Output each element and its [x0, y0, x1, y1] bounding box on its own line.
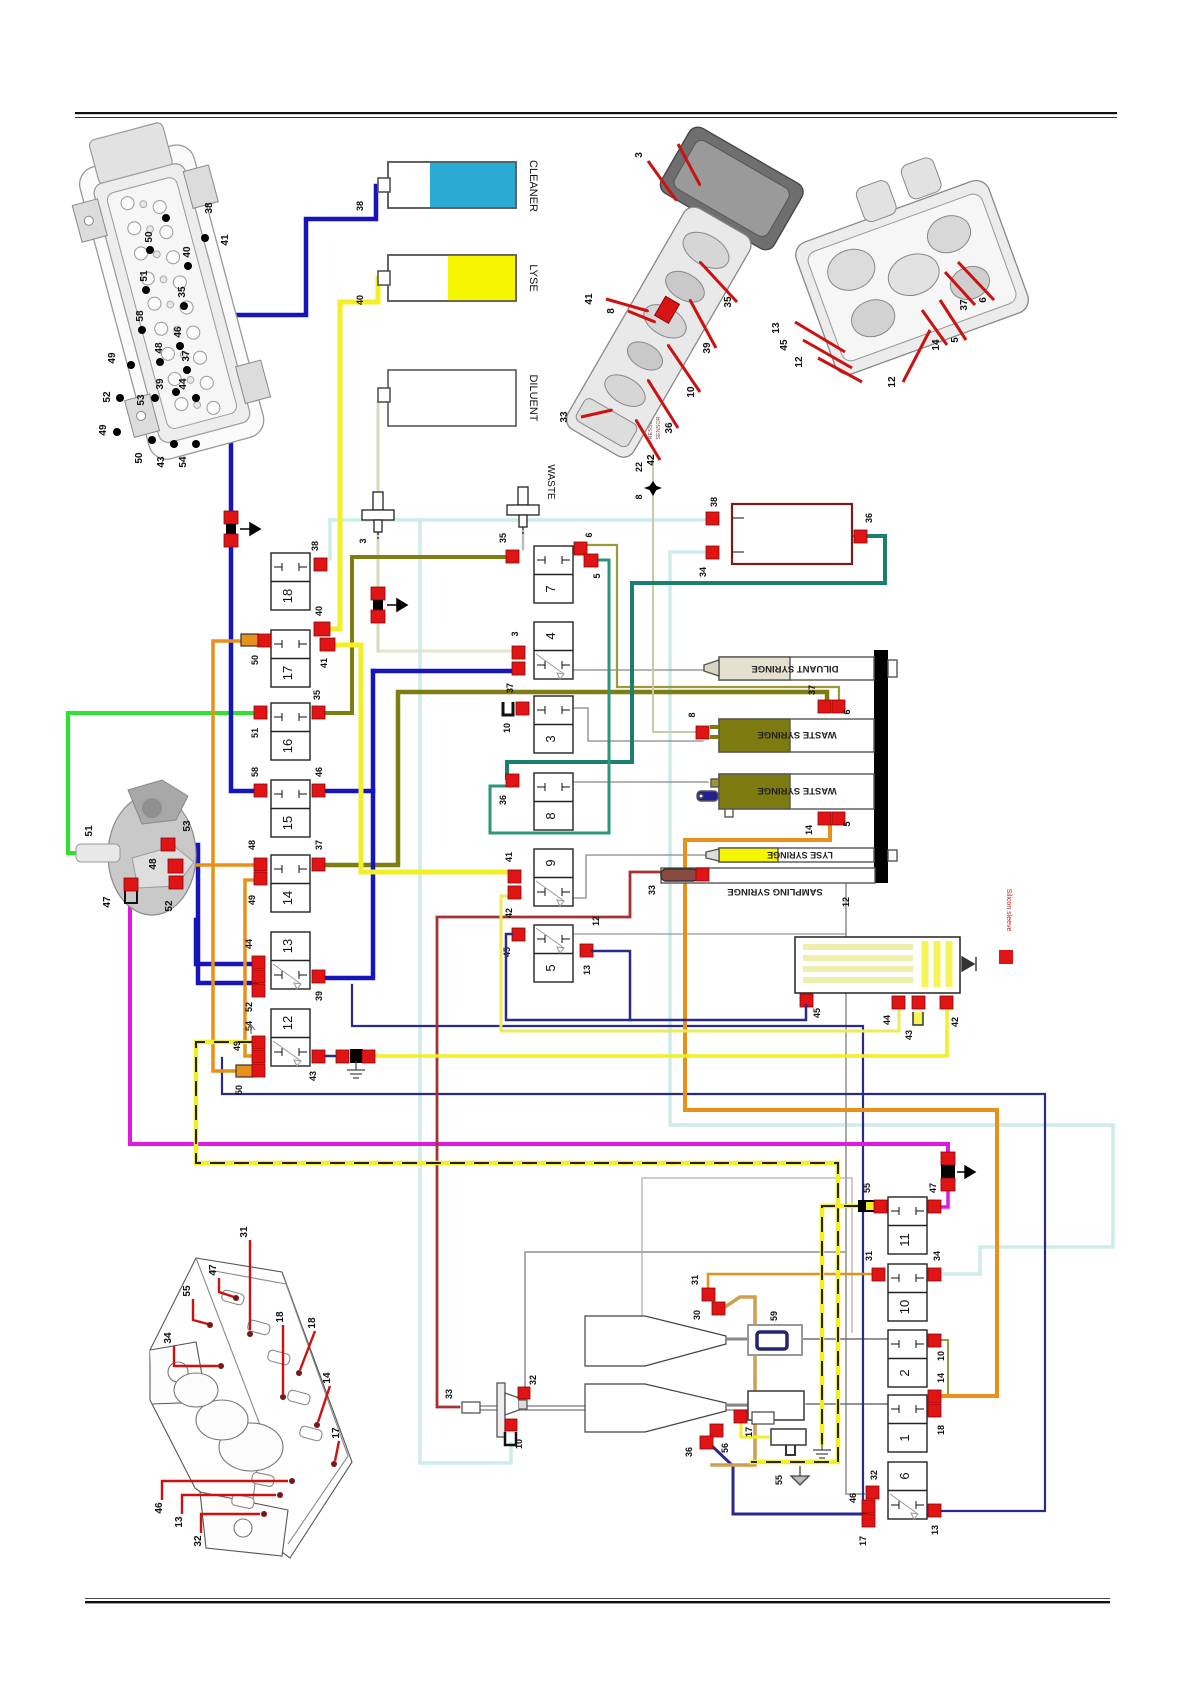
- valve 8: [534, 773, 573, 830]
- svg-text:49: 49: [98, 424, 109, 436]
- port 40 valve17: [314, 622, 330, 636]
- svg-text:36: 36: [684, 1447, 694, 1457]
- svg-text:43: 43: [308, 1071, 318, 1081]
- svg-text:58: 58: [135, 310, 146, 322]
- valve 2: [888, 1330, 927, 1387]
- port 48 valve14: [254, 858, 267, 871]
- wire gray valve5 rod to sampling syringe: [573, 933, 846, 935]
- port 5 valve7: [584, 554, 598, 567]
- port 10 valve3: [516, 702, 529, 715]
- port 54 valve12: [252, 1036, 265, 1049]
- svg-text:6: 6: [842, 709, 852, 714]
- wire orange probe48 to valve14.48: [185, 863, 255, 867]
- svg-text:34: 34: [932, 1251, 942, 1261]
- wire blue cleaner to valve15.58: [231, 186, 376, 791]
- svg-text:38: 38: [709, 497, 719, 507]
- svg-text:46: 46: [314, 767, 324, 777]
- wire green valve16.51 to probe: [68, 713, 258, 853]
- svg-text:39: 39: [155, 378, 166, 390]
- port 34 chamber: [706, 546, 719, 559]
- wire khaki valve7.6 to syringe port6: [588, 545, 839, 703]
- wire yellow valve17.41 to valve9.41: [333, 645, 509, 872]
- svg-text:44: 44: [244, 939, 254, 949]
- svg-text:35: 35: [498, 533, 508, 543]
- svg-text:54: 54: [178, 456, 189, 468]
- wire navy thin long loop2: [352, 985, 863, 1500]
- port 50 valve17: [258, 634, 271, 647]
- wire magenta probe47 to pinch valve11: [130, 895, 948, 1152]
- svg-text:50: 50: [144, 231, 155, 243]
- svg-text:35: 35: [312, 690, 322, 700]
- wire orange waste syringe2 to valve1.14: [685, 826, 997, 1396]
- svg-text:41: 41: [504, 852, 514, 862]
- svg-text:45: 45: [812, 1008, 822, 1018]
- svg-text:33: 33: [444, 1389, 454, 1399]
- black manifold bar: [874, 650, 888, 883]
- svg-text:46: 46: [173, 326, 184, 338]
- 3D probe fitting left: [76, 780, 196, 915]
- svg-text:11: 11: [897, 1233, 912, 1247]
- svg-text:10: 10: [897, 1300, 912, 1314]
- svg-text:34: 34: [163, 1332, 174, 1344]
- wire black dash overlay2: [822, 1206, 858, 1443]
- diluent syringe: [704, 657, 897, 680]
- port 36 chamber: [854, 530, 867, 543]
- wire crimson sampling syringe to needle: [437, 872, 663, 1407]
- port 10 valve2: [928, 1334, 941, 1347]
- svg-text:48: 48: [148, 858, 159, 870]
- svg-text:DILUENT: DILUENT: [527, 374, 539, 421]
- svg-text:3: 3: [510, 631, 520, 636]
- svg-text:38: 38: [204, 202, 215, 214]
- port 13 valve5: [580, 944, 593, 957]
- svg-text:12: 12: [591, 916, 601, 926]
- svg-text:1: 1: [897, 1434, 912, 1441]
- svg-text:50: 50: [234, 1085, 244, 1095]
- wire pale-cyan to needle port10: [420, 520, 511, 1463]
- svg-text:12: 12: [841, 897, 851, 907]
- port 18 valve1: [928, 1404, 941, 1417]
- port 49 valve14: [254, 872, 267, 885]
- sampling needle assembly: [462, 1383, 527, 1437]
- wire navy valve6.13 long loop: [222, 1058, 1045, 1511]
- svg-text:13: 13: [280, 939, 295, 953]
- svg-text:52: 52: [164, 900, 175, 912]
- svg-text:53: 53: [136, 394, 147, 406]
- port 46 valve15: [312, 784, 325, 797]
- svg-text:17: 17: [331, 1427, 342, 1439]
- svg-text:52: 52: [102, 391, 113, 403]
- wire navy valve12.43 link: [326, 1055, 337, 1058]
- wire black dash overlay: [196, 1042, 838, 1462]
- wire diluent drain down: [377, 402, 380, 651]
- block 59: [748, 1325, 802, 1355]
- valve 1: [888, 1395, 927, 1452]
- port 14 valve1: [928, 1390, 941, 1403]
- tank LYSE: [378, 255, 516, 301]
- svg-text:17: 17: [858, 1536, 868, 1546]
- valve 18: [271, 553, 310, 610]
- svg-text:SAMPLING SYRINGE: SAMPLING SYRINGE: [727, 886, 823, 897]
- svg-text:14: 14: [936, 1373, 946, 1383]
- svg-text:44: 44: [882, 1015, 892, 1025]
- wire needle lower: [480, 1409, 792, 1411]
- svg-text:CLEANER: CLEANER: [527, 160, 539, 212]
- svg-text:8: 8: [606, 308, 617, 314]
- port 10 needle: [505, 1419, 517, 1431]
- port 51 valve16: [254, 706, 267, 719]
- arrow above valve12.54: [247, 1025, 255, 1034]
- svg-text:13: 13: [930, 1525, 940, 1535]
- tank CLEANER: [378, 162, 516, 208]
- port 37 valve4: [512, 662, 525, 675]
- wire pale-cyan chamber34 to valve10.34: [670, 552, 1113, 1274]
- svg-text:14: 14: [931, 339, 942, 351]
- valve 5: [534, 925, 573, 982]
- 3D valve block exploded view: [657, 123, 807, 253]
- svg-text:13: 13: [174, 1516, 185, 1528]
- svg-text:3: 3: [634, 152, 645, 158]
- vent assembly below funnel 3: [371, 587, 385, 600]
- svg-text:LYSE: LYSE: [527, 264, 539, 291]
- wire teal valve7.5 loop: [490, 560, 609, 833]
- valve 4: [534, 622, 573, 679]
- bath neck 2: [726, 1404, 748, 1407]
- svg-text:32: 32: [869, 1470, 879, 1480]
- svg-text:48: 48: [247, 840, 257, 850]
- port 35 valve7: [506, 550, 519, 563]
- wire yellow valve12 pinch to exchanger42: [375, 1009, 947, 1056]
- port 47 valve11: [928, 1200, 941, 1213]
- wire orange valve14.49 to valve12.49: [245, 880, 255, 1056]
- port 44 valve13: [252, 956, 265, 969]
- svg-text:50: 50: [134, 452, 145, 464]
- svg-text:33: 33: [647, 885, 657, 895]
- wire gray loop bath1-valve2: [642, 1178, 852, 1332]
- port 38 valve18: [314, 558, 327, 571]
- svg-text:37: 37: [505, 683, 515, 693]
- svg-text:41: 41: [584, 293, 595, 305]
- svg-text:6: 6: [978, 297, 989, 303]
- svg-text:49: 49: [107, 352, 118, 364]
- svg-text:56: 56: [720, 1443, 730, 1453]
- wire gray valve3 to waste syringe1: [569, 708, 703, 741]
- wire lyse pickup: [390, 276, 448, 280]
- port pinch right: [362, 1050, 375, 1063]
- wire pale-yellow valve9.42 to exchanger44: [501, 896, 899, 1031]
- cap under needle port10: [505, 1432, 516, 1445]
- wire blue vertical to valve13.39: [326, 671, 373, 978]
- valve 16: [271, 703, 310, 760]
- lyse syringe: [706, 848, 897, 862]
- svg-text:41: 41: [319, 658, 329, 668]
- svg-text:59: 59: [769, 1311, 779, 1321]
- connector pin dots: [162, 214, 170, 222]
- bottom rule: [85, 1598, 1110, 1599]
- svg-text:49: 49: [247, 895, 257, 905]
- port 47 probe: [124, 878, 138, 891]
- port pinch bottom: [941, 1178, 955, 1191]
- svg-text:SENSOR: SENSOR: [656, 416, 662, 439]
- wire orange valve10.31 to bath port31: [708, 1274, 872, 1290]
- wire gray to sampling needle: [525, 1252, 846, 1388]
- valve 9: [534, 849, 573, 906]
- svg-text:34: 34: [698, 567, 708, 577]
- port 17 mix: [734, 1410, 747, 1423]
- wire gray sampling syringe down to valve6.32: [846, 883, 864, 1494]
- svg-text:37: 37: [314, 840, 324, 850]
- svg-text:10: 10: [936, 1351, 946, 1361]
- svg-text:18: 18: [280, 589, 295, 603]
- valve 3: [534, 696, 573, 753]
- wire olive valve14.37 to diluent syringe port37: [326, 692, 827, 865]
- svg-text:48: 48: [154, 342, 165, 354]
- svg-text:55: 55: [774, 1475, 784, 1485]
- port 31 bath: [702, 1288, 715, 1301]
- mix block: [748, 1391, 804, 1420]
- svg-text:32: 32: [193, 1535, 204, 1547]
- port 49 valve12: [252, 1050, 265, 1063]
- svg-text:46: 46: [848, 1493, 858, 1503]
- 3D bracket bottom-left: [150, 1258, 352, 1558]
- yellow cap port43: [913, 1012, 923, 1025]
- port 39 valve13: [312, 970, 325, 983]
- wire teal chamber36 to valve8.36: [507, 536, 885, 778]
- valve 17: [271, 630, 310, 687]
- svg-text:53: 53: [182, 820, 193, 832]
- port 52 probe: [169, 876, 183, 889]
- port 30 bath: [712, 1302, 725, 1315]
- svg-text:15: 15: [280, 816, 295, 830]
- ground right of mix block: [813, 1441, 831, 1458]
- port pinch top: [941, 1152, 955, 1165]
- svg-text:35: 35: [723, 296, 734, 308]
- ground under dashed yellow: [791, 1466, 809, 1485]
- svg-text:35: 35: [177, 286, 188, 298]
- svg-text:4: 4: [543, 632, 558, 639]
- svg-text:50: 50: [250, 655, 260, 665]
- svg-text:WASTE SYRINGE: WASTE SYRINGE: [757, 785, 836, 796]
- svg-text:13: 13: [771, 322, 782, 334]
- port 36 mix: [700, 1436, 713, 1449]
- port 52 valve13: [252, 984, 265, 997]
- port 6 diluent syringe: [832, 700, 845, 713]
- svg-text:18: 18: [307, 1317, 318, 1329]
- port 58 valve15: [254, 784, 267, 797]
- svg-text:47: 47: [928, 1183, 938, 1193]
- wire yellow dashed main: [196, 1042, 838, 1462]
- valve 10: [888, 1264, 927, 1321]
- port 32 valve6: [866, 1486, 879, 1499]
- svg-text:42: 42: [950, 1017, 960, 1027]
- 3D manifold connector top-left: [57, 113, 279, 467]
- wire yellow lyse to valve17.40: [330, 278, 378, 629]
- wire magenta pinch to valve11.47: [941, 1191, 948, 1207]
- port 41 valve9: [508, 870, 521, 883]
- ground under pinch valve12: [347, 1061, 365, 1078]
- port 38 chamber: [706, 512, 719, 525]
- wire gray block59 to valve2: [802, 1338, 888, 1340]
- waste funnel 35: [507, 487, 539, 534]
- svg-text:36: 36: [664, 422, 675, 434]
- port 35 valve16: [312, 706, 325, 719]
- svg-text:55: 55: [862, 1183, 872, 1193]
- valve 15: [271, 780, 310, 837]
- wire orange valve17.50 to valve12.50: [213, 641, 243, 1071]
- svg-text:6: 6: [897, 1472, 912, 1479]
- svg-text:5: 5: [842, 821, 852, 826]
- bath 2 (RBC): [585, 1384, 726, 1432]
- bath neck 1: [726, 1338, 748, 1341]
- wire yellow needle port17 to mix block: [741, 1421, 768, 1437]
- svg-text:32: 32: [528, 1375, 538, 1385]
- svg-text:33: 33: [559, 411, 570, 423]
- red pointer arrows part D: [249, 1240, 251, 1330]
- port 6 valve7: [574, 542, 587, 555]
- cap under probe47: [125, 891, 137, 903]
- 3D manifold block top-right: [779, 141, 1033, 378]
- wire blue valve15.46 branch: [326, 789, 373, 794]
- svg-text:47: 47: [208, 1264, 219, 1276]
- svg-text:37: 37: [959, 299, 970, 311]
- svg-text:38: 38: [355, 201, 365, 211]
- valve 13: [271, 932, 310, 989]
- svg-text:8: 8: [687, 712, 697, 717]
- svg-text:39: 39: [702, 342, 713, 354]
- wire gray valve9 to lyse syringe rod: [572, 855, 706, 898]
- port 37 diluent syringe: [818, 700, 831, 713]
- svg-text:39: 39: [314, 991, 324, 1001]
- port 3 valve4: [512, 646, 525, 659]
- orange cap valve17.50: [241, 634, 258, 646]
- navy cap valve3.10: [503, 702, 513, 715]
- wire blue probe53 to valve13: [171, 845, 256, 983]
- waste syringe 1: [710, 719, 874, 752]
- svg-text:Silicon sleeve: Silicon sleeve: [1005, 889, 1012, 932]
- port 45 exchanger: [800, 994, 813, 1007]
- svg-text:44: 44: [178, 378, 189, 390]
- svg-text:5: 5: [543, 964, 558, 971]
- svg-text:51: 51: [84, 825, 95, 837]
- port sampling syringe: [696, 868, 709, 881]
- svg-text:6: 6: [584, 532, 594, 537]
- port 42 valve9: [508, 886, 521, 899]
- port 48 probe: [168, 859, 183, 873]
- wire blue valve13.44 up: [196, 920, 252, 964]
- svg-text:38: 38: [310, 541, 320, 551]
- wire teal cleaner pickup: [390, 184, 430, 187]
- svg-text:40: 40: [182, 246, 193, 258]
- vent assembly on cleaner line: [224, 511, 238, 524]
- svg-text:13: 13: [582, 965, 592, 975]
- svg-text:5: 5: [950, 337, 961, 343]
- pressure sensor: [644, 481, 662, 496]
- svg-text:31: 31: [864, 1251, 874, 1261]
- svg-text:WASTE SYRINGE: WASTE SYRINGE: [757, 729, 836, 740]
- port 17 valve6: [862, 1514, 875, 1527]
- svg-text:55: 55: [182, 1285, 193, 1297]
- black-yellow cap valve11.55: [858, 1200, 874, 1212]
- valve 7: [534, 546, 573, 603]
- svg-text:10: 10: [686, 386, 697, 398]
- port 43 exchanger: [912, 996, 925, 1009]
- port 42 exchanger: [940, 996, 953, 1009]
- svg-text:12: 12: [280, 1016, 295, 1030]
- svg-text:2: 2: [897, 1369, 912, 1376]
- svg-text:12: 12: [794, 356, 805, 368]
- port 41 valve17: [320, 638, 335, 651]
- port 8 waste syringe1: [696, 726, 709, 739]
- wire navy mix block to valve6.46: [713, 1447, 866, 1514]
- wire navy valve5.45 to exchanger45: [506, 934, 806, 1020]
- wire diluent pickup tip: [497, 392, 516, 396]
- svg-text:7: 7: [543, 585, 558, 592]
- wire cream drain to valve4 port3: [378, 650, 510, 653]
- svg-text:18: 18: [275, 1311, 286, 1323]
- svg-text:18: 18: [936, 1425, 946, 1435]
- svg-text:9: 9: [543, 859, 558, 866]
- svg-text:30: 30: [692, 1310, 702, 1320]
- svg-text:14: 14: [322, 1372, 333, 1384]
- svg-text:51: 51: [139, 270, 150, 282]
- wire gray mix block to valve1: [806, 1403, 888, 1405]
- svg-text:45: 45: [779, 339, 790, 351]
- port 44 exchanger: [892, 996, 905, 1009]
- port 50 valve12: [252, 1064, 265, 1077]
- top rule: [75, 112, 1117, 114]
- wire navy branch to valve5.13: [592, 951, 630, 1020]
- wire blue to valve4.37: [373, 669, 512, 674]
- port 5 waste syringe2: [832, 812, 845, 825]
- wire gray valve4 to diluent syringe rod: [572, 669, 706, 671]
- svg-text:37: 37: [807, 685, 817, 695]
- svg-text:31: 31: [690, 1275, 700, 1285]
- svg-text:5: 5: [592, 573, 602, 578]
- svg-text:3: 3: [358, 538, 368, 543]
- svg-text:43: 43: [156, 456, 167, 468]
- wire gray valve8 to waste syringe2: [569, 781, 708, 783]
- svg-text:37: 37: [181, 350, 192, 362]
- wire tan bath port30 loop: [712, 1297, 755, 1465]
- red pointer arrows part B: [648, 161, 676, 200]
- bath 1 (WBC): [585, 1316, 726, 1366]
- port 31 valve10: [872, 1268, 885, 1281]
- port pinch left: [336, 1050, 349, 1063]
- svg-text:41: 41: [220, 234, 231, 246]
- svg-text:14: 14: [280, 891, 295, 905]
- port valve13 mid: [252, 970, 265, 983]
- valve 14: [271, 855, 310, 912]
- port 45 valve5: [512, 928, 525, 941]
- svg-text:40: 40: [355, 295, 365, 305]
- svg-text:22: 22: [634, 462, 644, 472]
- svg-text:52: 52: [244, 1002, 254, 1012]
- svg-text:51: 51: [250, 728, 260, 738]
- svg-text:31: 31: [239, 1226, 250, 1238]
- wire needle upper: [480, 1405, 792, 1407]
- valve 11: [888, 1197, 927, 1254]
- port 55 valve11: [874, 1200, 887, 1213]
- port 37 valve14: [312, 858, 325, 871]
- wire pale-cyan to valve18 port38: [321, 520, 330, 559]
- valve 12: [271, 1009, 310, 1066]
- svg-text:17: 17: [744, 1427, 754, 1437]
- svg-text:WASTE: WASTE: [545, 464, 556, 500]
- port 14 waste syringe2: [818, 812, 831, 825]
- svg-text:17: 17: [280, 666, 295, 680]
- svg-text:LYSE SYRINGE: LYSE SYRINGE: [767, 850, 833, 860]
- wire pale-cyan waste top: [330, 518, 712, 522]
